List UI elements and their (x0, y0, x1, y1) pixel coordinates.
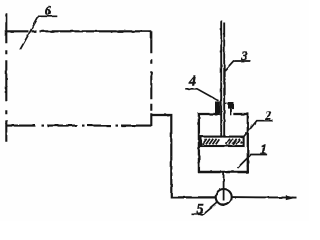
gland tick (224, 102, 228, 104)
enclosure left edge (5, 13, 7, 142)
leader 4 (185, 89, 219, 101)
enclosure right edge (150, 31, 152, 126)
svg-text:4: 4 (188, 74, 196, 90)
enclosure bottom edge (6, 125, 152, 127)
rod 3 (double line) (221, 20, 224, 138)
leader 1 (238, 155, 268, 169)
cylinder right wall (247, 113, 249, 173)
pipe cylinder to pump (223, 172, 225, 201)
leader 3 (225, 61, 251, 71)
gland stem (230, 109, 232, 116)
hatch end dot (240, 141, 243, 144)
gland knob 4 (right) (228, 102, 234, 109)
enclosure 6 (dash-dot outline) (6, 13, 152, 142)
cylinder top edge left segment (198, 113, 215, 115)
pump 5 (circle) (216, 189, 232, 205)
leader 5 (192, 203, 218, 215)
cylinder 1 (198, 113, 249, 173)
enclosure top edge (6, 30, 152, 32)
leader 2 (243, 121, 273, 138)
flow arrow head (286, 195, 297, 200)
piston 2 (hatched band) (201, 137, 244, 146)
outlet line with flow arrow (232, 196, 297, 199)
cylinder top edge right segment (233, 113, 249, 115)
cylinder bottom edge (198, 171, 249, 174)
gland clamp 4 (left block) (215, 102, 220, 116)
pipe from enclosure to pump (151, 115, 215, 197)
leader 6 (20, 16, 57, 50)
white gap where rod meets piston (222, 138, 224, 142)
cylinder left wall (198, 113, 200, 173)
